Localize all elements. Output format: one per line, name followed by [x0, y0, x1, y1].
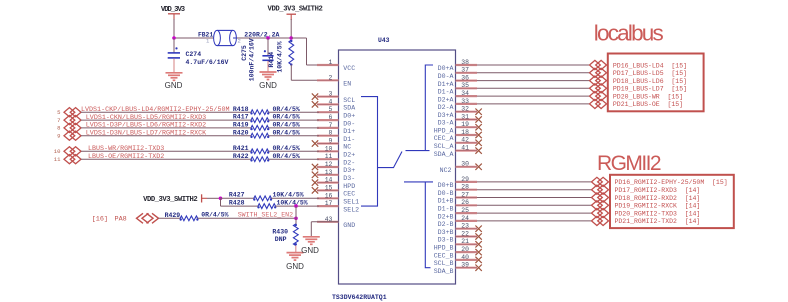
no-connect X pin 14 — [312, 179, 318, 185]
pin 14 HPD of U43 — [317, 182, 339, 184]
wire junction to R427 — [221, 197, 254, 199]
svg-text:38: 38 — [461, 59, 469, 66]
svg-text:22: 22 — [461, 230, 469, 237]
svg-text:10: 10 — [54, 148, 61, 155]
svg-text:D0-: D0- — [343, 120, 355, 127]
svg-text:VCC: VCC — [343, 65, 355, 72]
no-connect X pin 13 — [312, 172, 318, 178]
node RGMII2 entry PD20_RGMII2-TXD3 — [592, 209, 603, 218]
svg-text:10K/4/5%: 10K/4/5% — [273, 192, 304, 199]
svg-text:D3+A: D3+A — [438, 112, 454, 119]
svg-text:35: 35 — [461, 82, 469, 89]
wire SEL2 junction down to R430 — [295, 206, 297, 224]
internal bus bracket B — [404, 181, 433, 183]
svg-text:31: 31 — [461, 113, 469, 120]
pin 42 SCL_A of U43 — [456, 142, 478, 144]
pin 6 D0- of U43 — [317, 119, 339, 121]
wire net SWITH_SEL2_EN2 — [198, 217, 296, 219]
svg-text:9: 9 — [329, 138, 333, 145]
pin 33 D2-A of U43 — [456, 103, 478, 105]
svg-text:9: 9 — [57, 133, 60, 140]
svg-text:PD18_RGMII2-RXD2 [14]: PD18_RGMII2-RXD2 [14] — [615, 195, 701, 202]
sheet connector box localbus — [608, 54, 704, 112]
svg-text:40: 40 — [461, 254, 469, 261]
wire EN feed — [290, 65, 292, 81]
pin 24 D2-B of U43 — [456, 220, 478, 222]
svg-text:PD16_LBUS-LD4 [15]: PD16_LBUS-LD4 [15] — [613, 62, 687, 69]
svg-text:15: 15 — [325, 184, 333, 191]
svg-text:C275: C275 — [241, 45, 248, 61]
wire U43 pin 26 to RGMII2 — [477, 204, 592, 206]
no-connect X pin 4 — [312, 101, 318, 107]
pin 35 D1-A of U43 — [456, 87, 478, 89]
svg-text:SCL: SCL — [343, 97, 355, 104]
wire R430 to ground — [295, 246, 297, 253]
node junction SEL2 — [294, 204, 298, 208]
svg-text:R427: R427 — [229, 192, 245, 199]
svg-text:R430: R430 — [272, 228, 288, 235]
svg-text:R422: R422 — [233, 153, 249, 160]
svg-text:localbus: localbus — [594, 20, 664, 45]
pin 41 SDA_A of U43 — [456, 150, 478, 152]
wire rail FB21 to VDD_3V3_SWITH2 node — [237, 37, 307, 39]
pin 40 SCL_B of U43 — [456, 259, 478, 261]
svg-text:10K/4/5%: 10K/4/5% — [277, 41, 284, 72]
pin 21 HPD_B of U43 — [456, 243, 478, 245]
pin 29 D0+B of U43 — [456, 181, 478, 183]
svg-text:GND: GND — [259, 81, 277, 90]
capacitor C275 — [267, 38, 269, 56]
svg-text:DNP: DNP — [275, 236, 287, 243]
wire U43 pin 35 to localbus — [477, 87, 590, 89]
pin 9 NC of U43 — [317, 142, 339, 144]
node localbus entry PD18_LBUS-LD6 — [590, 76, 601, 85]
svg-text:7: 7 — [329, 122, 333, 129]
svg-text:10: 10 — [325, 145, 333, 152]
pin 12 D3+ of U43 — [317, 166, 339, 168]
pin 22 D3-B of U43 — [456, 235, 478, 237]
wire U43 pin 34 to localbus — [477, 95, 590, 97]
svg-text:SEL2: SEL2 — [343, 206, 359, 213]
pin 32 D3+A of U43 — [456, 111, 478, 113]
wire net LVDS1-D3N/LBUS-LD7/RGMII2-RXCK — [81, 135, 251, 137]
wire R427 to U43 pin 16 — [271, 197, 319, 199]
internal bus bracket A — [406, 150, 430, 152]
wire R419 to U43 pin 7 — [269, 127, 320, 129]
svg-text:GND: GND — [165, 81, 183, 90]
no-connect X pin 32 — [475, 109, 481, 115]
op-amp U43 body — [339, 50, 456, 284]
no-connect X pin 39 — [475, 265, 481, 271]
node RGMII2 entry PD17_RGMII2-RXD3 — [592, 185, 603, 194]
pin 30 NC2 of U43 — [456, 166, 478, 168]
svg-text:CEC: CEC — [343, 191, 355, 198]
svg-text:5: 5 — [329, 106, 333, 113]
pin 5 D0+ of U43 — [317, 111, 339, 113]
node localbus entry PD16_LBUS-LD4 — [590, 60, 601, 69]
svg-text:CEC_B: CEC_B — [434, 252, 454, 259]
svg-text:LVDS1-CKN/LBUS-LD5/RGMII2-RXD3: LVDS1-CKN/LBUS-LD5/RGMII2-RXD3 — [86, 114, 206, 122]
svg-text:HPD: HPD — [343, 183, 355, 190]
pin 38 D0+A of U43 — [456, 64, 478, 66]
svg-text:18: 18 — [461, 129, 469, 136]
svg-text:D1-B: D1-B — [438, 206, 454, 213]
wire R418 to U43 pin 5 — [269, 111, 320, 113]
svg-text:R414: R414 — [268, 52, 275, 68]
svg-text:SDA_B: SDA_B — [434, 268, 454, 275]
node RGMII2 entry PD18_RGMII2-RXD2 — [592, 193, 603, 202]
svg-text:28: 28 — [461, 184, 469, 191]
svg-text:EN: EN — [343, 81, 351, 88]
svg-text:SEL1: SEL1 — [343, 199, 359, 206]
internal bus bracket left — [361, 97, 378, 207]
svg-text:PD17_RGMII2-RXD3 [14]: PD17_RGMII2-RXD3 [14] — [615, 187, 701, 194]
svg-text:20: 20 — [461, 246, 469, 253]
svg-text:CEC_A: CEC_A — [434, 135, 454, 142]
wire net LBUS-OE/RGMII2-TXD2 — [81, 158, 251, 160]
svg-text:11: 11 — [54, 156, 61, 163]
capacitor C274 — [173, 38, 175, 53]
pin 39 SDA_B of U43 — [456, 267, 478, 269]
svg-text:21: 21 — [461, 238, 469, 245]
svg-text:24: 24 — [461, 215, 469, 222]
svg-text:PA8: PA8 — [115, 216, 127, 224]
svg-text:LVDS1-CKP/LBUS-LD4/RGMII2-EPHY: LVDS1-CKP/LBUS-LD4/RGMII2-EPHY-25/50M — [81, 106, 230, 114]
svg-text:100nF/4/16V: 100nF/4/16V — [249, 38, 256, 81]
svg-text:NC2: NC2 — [440, 167, 452, 174]
wire PA8 to R429 — [159, 217, 181, 219]
svg-text:NC: NC — [343, 144, 351, 151]
pin 23 D3+B of U43 — [456, 228, 478, 230]
node localbus entry PD20_LBUS-WR — [590, 92, 601, 101]
pin 13 D3- of U43 — [317, 174, 339, 176]
svg-text:0R/4/5%: 0R/4/5% — [201, 212, 228, 219]
no-connect X pin 19 — [475, 124, 481, 130]
node localbus entry PD21_LBUS-OE — [590, 99, 601, 108]
wire U43 pin 29 to RGMII2 — [477, 181, 592, 183]
pin 2 EN of U43 — [317, 79, 339, 81]
svg-text:26: 26 — [461, 199, 469, 206]
svg-text:D3-A: D3-A — [438, 120, 454, 127]
svg-text:1: 1 — [329, 59, 333, 66]
no-connect X pin 15 — [312, 187, 318, 193]
svg-text:D1+B: D1+B — [438, 198, 454, 205]
svg-text:8: 8 — [57, 125, 60, 132]
wire C274 to ground — [173, 59, 175, 73]
pin 19 HPD_A of U43 — [456, 126, 478, 128]
wire junction down to R428 — [220, 198, 222, 206]
wire net LVDS1-D3P/LBUS-LD6/RGMII2-RXD2 — [81, 127, 251, 129]
svg-text:4: 4 — [329, 98, 333, 105]
svg-text:14: 14 — [325, 177, 333, 184]
wire U43 pin 37 to localbus — [477, 72, 590, 74]
svg-text:23: 23 — [461, 223, 469, 230]
pin 7 D1+ of U43 — [317, 127, 339, 129]
pin 8 D1- of U43 — [317, 135, 339, 137]
svg-text:C274: C274 — [186, 51, 202, 58]
svg-text:D1-: D1- — [343, 136, 355, 143]
svg-text:33: 33 — [461, 98, 469, 105]
pin 25 D2+B of U43 — [456, 212, 478, 214]
svg-text:41: 41 — [461, 145, 469, 152]
svg-text:TS3DV642RUATQ1: TS3DV642RUATQ1 — [332, 294, 387, 301]
no-connect X pin 3 — [312, 93, 318, 99]
wire U43 pin 43 to ground — [311, 221, 338, 223]
svg-text:11: 11 — [325, 153, 333, 160]
svg-text:SDA_A: SDA_A — [434, 151, 454, 158]
node localbus entry PD19_LBUS-LD7 — [590, 84, 601, 93]
ground under C274 — [166, 72, 183, 74]
svg-text:2: 2 — [329, 74, 333, 81]
svg-text:D0+B: D0+B — [438, 182, 454, 189]
pin 20 CEC_B of U43 — [456, 251, 478, 253]
wire R417 to U43 pin 6 — [269, 119, 320, 121]
svg-text:6: 6 — [329, 114, 333, 121]
svg-text:R419: R419 — [233, 122, 249, 129]
wire R421 to U43 pin 10 — [269, 150, 320, 152]
node junction at VDD_3V3 — [172, 36, 176, 40]
node RGMII2 entry PD16_RGMII2-EPHY-25/50M — [592, 177, 603, 186]
svg-text:D0+A: D0+A — [438, 65, 454, 72]
no-connect X pin 23 — [475, 226, 481, 232]
svg-text:17: 17 — [325, 200, 333, 207]
svg-text:[16]: [16] — [92, 216, 108, 224]
wire VDD_3V3 stem — [173, 19, 175, 38]
svg-text:10K/4/5%: 10K/4/5% — [277, 200, 308, 207]
svg-text:LVDS1-D3P/LBUS-LD6/RGMII2-RXD2: LVDS1-D3P/LBUS-LD6/RGMII2-RXD2 — [86, 122, 206, 130]
pin 31 D3-A of U43 — [456, 118, 478, 120]
node localbus entry PD17_LBUS-LD5 — [590, 68, 601, 77]
svg-text:D1-A: D1-A — [438, 89, 454, 96]
wire net LVDS1-CKP/LBUS-LD4/RGMII2-EPHY-25/50M — [81, 111, 251, 113]
svg-text:GND: GND — [286, 262, 304, 271]
svg-text:PD19_RGMII2-RXCK [14]: PD19_RGMII2-RXCK [14] — [615, 203, 701, 210]
wire U43 pin 27 to RGMII2 — [477, 197, 592, 199]
wire U43 pin 25 to RGMII2 — [477, 212, 592, 214]
pin 34 D2+A of U43 — [456, 95, 478, 97]
wire U43 pin 38 to localbus — [477, 64, 590, 66]
svg-text:37: 37 — [461, 67, 469, 74]
svg-text:4.7uF/6/16V: 4.7uF/6/16V — [186, 59, 229, 66]
svg-text:SDA: SDA — [343, 105, 355, 112]
sheet connector box RGMII2 — [610, 175, 734, 228]
svg-text:27: 27 — [461, 191, 469, 198]
wire C275 to ground — [267, 61, 269, 72]
svg-text:D0-A: D0-A — [438, 73, 454, 80]
pin 11 D2- of U43 — [317, 158, 339, 160]
wire rail VDD_3V3 to FB21 — [174, 37, 214, 39]
svg-text:PD17_LBUS-LD5 [15]: PD17_LBUS-LD5 [15] — [613, 70, 687, 77]
node RGMII2 entry PD19_RGMII2-RXCK — [592, 201, 603, 210]
svg-text:29: 29 — [461, 176, 469, 183]
wire U43 pin 28 to RGMII2 — [477, 189, 592, 191]
svg-text:PD21_RGMII2-TXD2 [14]: PD21_RGMII2-TXD2 [14] — [615, 218, 701, 225]
pin 3 SCL of U43 — [317, 95, 339, 97]
svg-text:16: 16 — [325, 192, 333, 199]
svg-text:42: 42 — [461, 137, 469, 144]
pin 15 CEC of U43 — [317, 189, 339, 191]
svg-text:2: 2 — [238, 38, 241, 45]
wire net LBUS-WR/RGMII2-TXD3 — [81, 150, 251, 152]
svg-text:D3-B: D3-B — [438, 237, 454, 244]
pin 43 GND of U43 — [317, 221, 339, 223]
svg-text:HPD_A: HPD_A — [434, 127, 454, 134]
pin 1 VCC of U43 — [317, 64, 339, 66]
resistor R430 — [293, 224, 298, 246]
svg-text:32: 32 — [461, 106, 469, 113]
svg-text:R421: R421 — [233, 145, 249, 152]
svg-text:D0-B: D0-B — [438, 190, 454, 197]
pin 4 SDA of U43 — [317, 103, 339, 105]
svg-text:D3-: D3- — [343, 175, 355, 182]
pin 10 D2+ of U43 — [317, 150, 339, 152]
svg-text:R417: R417 — [233, 114, 249, 121]
wire net LVDS1-CKN/LBUS-LD5/RGMII2-RXD3 — [81, 119, 251, 121]
svg-text:PD18_LBUS-LD6 [15]: PD18_LBUS-LD6 [15] — [613, 78, 687, 85]
svg-text:PD16_RGMII2-EPHY-25/50M [15]: PD16_RGMII2-EPHY-25/50M [15] — [615, 179, 728, 186]
svg-text:D2-B: D2-B — [438, 221, 454, 228]
svg-text:LBUS-OE/RGMII2-TXD2: LBUS-OE/RGMII2-TXD2 — [88, 153, 164, 161]
pin 16 SEL1 of U43 — [317, 197, 339, 199]
node junction C275 tap — [266, 36, 270, 40]
wire U43 pin 33 to localbus — [477, 103, 590, 105]
svg-text:VDD_3V3_SWITH2: VDD_3V3_SWITH2 — [143, 196, 197, 204]
svg-text:PD20_RGMII2-TXD3 [14]: PD20_RGMII2-TXD3 [14] — [615, 210, 701, 217]
svg-text:LBUS-WR/RGMII2-TXD3: LBUS-WR/RGMII2-TXD3 — [88, 145, 164, 153]
svg-text:PD19_LBUS-LD7 [15]: PD19_LBUS-LD7 [15] — [613, 86, 687, 93]
wire U43 pin 24 to RGMII2 — [477, 220, 592, 222]
pin 18 CEC_A of U43 — [456, 134, 478, 136]
svg-text:36: 36 — [461, 75, 469, 82]
svg-text:U43: U43 — [378, 37, 390, 44]
no-connect X pin 21 — [475, 241, 481, 247]
svg-text:D1+: D1+ — [343, 128, 355, 135]
pin 17 SEL2 of U43 — [317, 205, 339, 207]
svg-text:19: 19 — [461, 121, 469, 128]
svg-text:SCL_B: SCL_B — [434, 260, 454, 267]
resistor R414 — [289, 40, 294, 65]
internal switch — [378, 152, 403, 168]
svg-text:5: 5 — [57, 109, 60, 116]
node junction R427/R428 — [219, 197, 223, 201]
wire R420 to U43 pin 8 — [269, 135, 320, 137]
no-connect X pin 9 — [312, 140, 318, 146]
svg-text:SWITH_SEL2_EN2: SWITH_SEL2_EN2 — [238, 211, 293, 218]
pin 37 D0-A of U43 — [456, 72, 478, 74]
svg-text:30: 30 — [461, 161, 469, 168]
svg-text:D2+: D2+ — [343, 152, 355, 159]
no-connect X pin 22 — [475, 233, 481, 239]
svg-text:12: 12 — [325, 161, 333, 168]
no-connect X pin 18 — [475, 132, 481, 138]
svg-text:7: 7 — [57, 117, 60, 124]
no-connect X pin 41 — [475, 147, 481, 153]
wire U43 pin 36 to localbus — [477, 80, 590, 82]
svg-text:D2+A: D2+A — [438, 96, 454, 103]
svg-text:D2-: D2- — [343, 159, 355, 166]
svg-text:RGMII2: RGMII2 — [597, 152, 661, 175]
svg-text:PD20_LBUS-WR [15]: PD20_LBUS-WR [15] — [613, 93, 683, 100]
svg-text:D3+B: D3+B — [438, 229, 454, 236]
no-connect X pin 42 — [475, 140, 481, 146]
svg-text:D2+B: D2+B — [438, 213, 454, 220]
svg-text:D1+A: D1+A — [438, 81, 454, 88]
ground under C275 — [260, 71, 277, 73]
svg-text:D0+: D0+ — [343, 112, 355, 119]
pin 28 D0-B of U43 — [456, 189, 478, 191]
ground under R430 — [287, 252, 304, 254]
svg-text:13: 13 — [325, 169, 333, 176]
no-connect X pin 40 — [475, 257, 481, 263]
svg-text:R429: R429 — [165, 212, 181, 219]
svg-text:SCL_A: SCL_A — [434, 143, 454, 150]
svg-text:3: 3 — [329, 91, 333, 98]
svg-text:GND: GND — [301, 246, 319, 255]
node RGMII2 entry PD21_RGMII2-TXD2 — [592, 216, 603, 225]
no-connect X pin 20 — [475, 249, 481, 255]
svg-text:LVDS1-D3N/LBUS-LD7/RGMII2-RXCK: LVDS1-D3N/LBUS-LD7/RGMII2-RXCK — [86, 130, 206, 138]
node junction R414 tap — [289, 36, 293, 40]
pin 26 D1-B of U43 — [456, 204, 478, 206]
svg-text:R418: R418 — [233, 106, 249, 113]
wire VDD_3V3_SWITH2 stem — [290, 19, 292, 38]
node junction SWITH_SEL2_EN2 — [294, 217, 298, 221]
svg-text:R420: R420 — [233, 129, 249, 136]
svg-text:D3+: D3+ — [343, 167, 355, 174]
ground at pin 43 — [303, 236, 320, 238]
svg-text:VDD_3V3: VDD_3V3 — [161, 6, 185, 14]
wire R428 to U43 pin 17 — [276, 205, 320, 207]
svg-text:D2-A: D2-A — [438, 104, 454, 111]
no-connect X pin 31 — [475, 116, 481, 122]
svg-text:VDD_3V3_SWITH2: VDD_3V3_SWITH2 — [268, 6, 323, 14]
wire VCC feed — [291, 37, 306, 39]
wire R422 to U43 pin 11 — [269, 158, 320, 160]
svg-text:GND: GND — [343, 222, 355, 229]
wire VDD_3V3_SWITH2 to R427 — [207, 197, 221, 199]
svg-text:R428: R428 — [229, 200, 245, 207]
svg-text:PD21_LBUS-OE [15]: PD21_LBUS-OE [15] — [613, 101, 683, 108]
svg-text:39: 39 — [461, 262, 469, 269]
no-connect X pin 30 — [475, 164, 481, 170]
svg-text:25: 25 — [461, 207, 469, 214]
pin 36 D1+A of U43 — [456, 79, 478, 81]
pin 27 D1+B of U43 — [456, 196, 478, 198]
svg-text:34: 34 — [461, 90, 469, 97]
svg-text:8: 8 — [329, 130, 333, 137]
no-connect X pin 12 — [312, 164, 318, 170]
svg-text:HPD_B: HPD_B — [434, 245, 454, 252]
